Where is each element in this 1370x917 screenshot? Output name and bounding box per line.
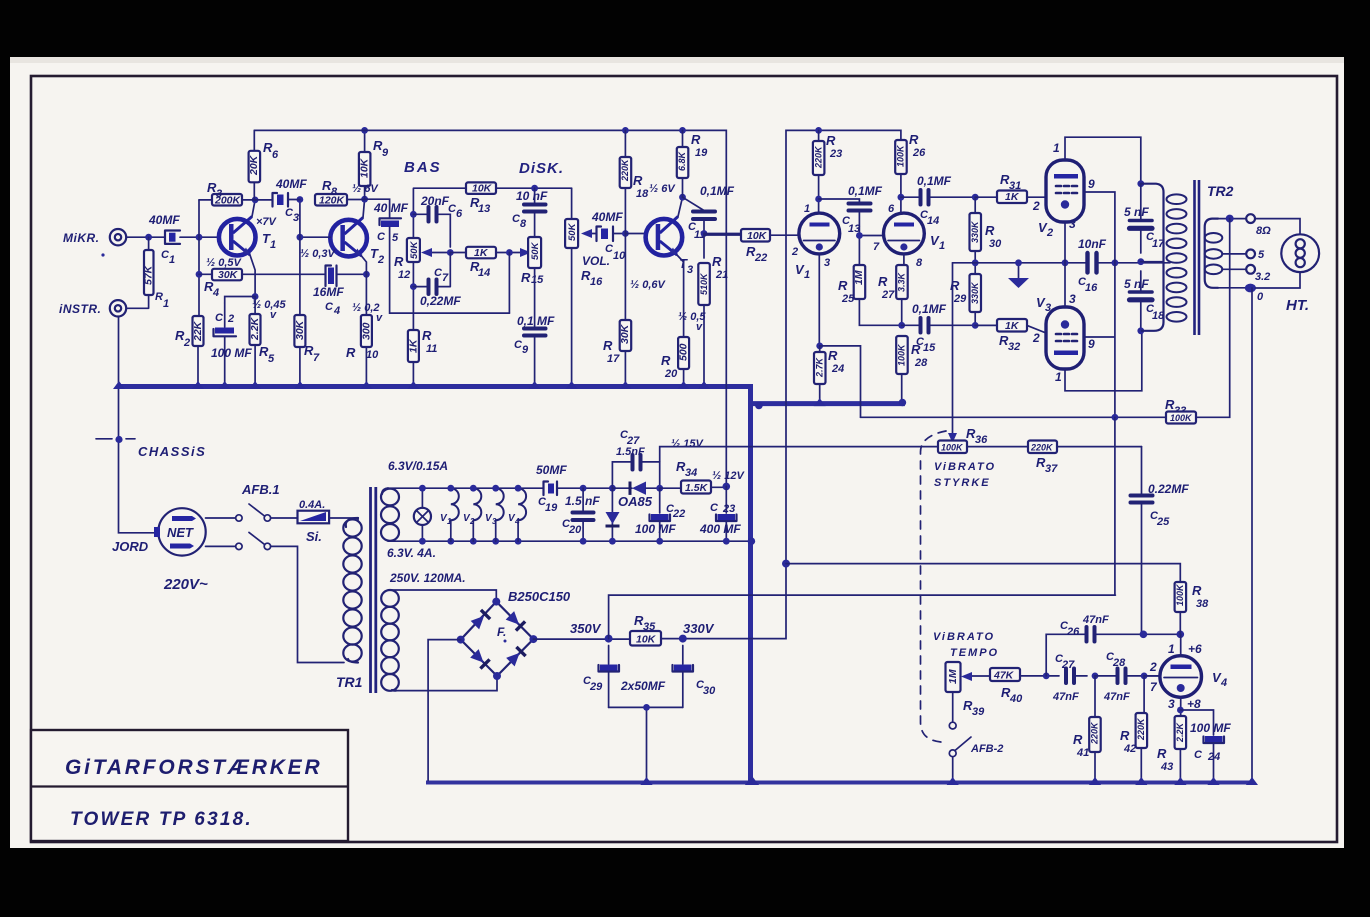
svg-text:330K: 330K: [970, 220, 980, 243]
svg-text:1: 1: [1168, 642, 1175, 656]
R12 wiper arrow: [432, 252, 450, 254]
svg-text:16: 16: [590, 276, 603, 288]
svg-text:30K: 30K: [294, 319, 306, 340]
fuse Si 0.4A: [271, 517, 298, 519]
heater bottom rail: [388, 540, 751, 542]
svg-text:21: 21: [715, 269, 728, 281]
svg-text:R: R: [691, 132, 701, 147]
svg-text:ViBRATO: ViBRATO: [934, 461, 996, 473]
svg-text:1M: 1M: [947, 669, 959, 684]
svg-text:50K: 50K: [409, 240, 420, 259]
capacitor C17 5nF: [1137, 180, 1144, 187]
wire V1b cathode: [903, 254, 905, 265]
svg-text:57K: 57K: [143, 264, 155, 285]
svg-text:1: 1: [447, 517, 452, 526]
svg-text:27: 27: [1061, 659, 1075, 671]
svg-text:47nF: 47nF: [1052, 691, 1079, 703]
chassis marker: [96, 438, 135, 440]
wire 250V bottom to bridge: [396, 676, 497, 691]
capacitor C24 100MF: [1180, 710, 1213, 735]
svg-text:8Ω: 8Ω: [1256, 225, 1271, 237]
node divider: [196, 234, 203, 241]
svg-text:7: 7: [442, 272, 449, 284]
svg-text:23: 23: [829, 148, 842, 160]
svg-text:+8: +8: [1187, 697, 1201, 711]
svg-text:5: 5: [268, 353, 275, 365]
svg-text:100 MF: 100 MF: [1190, 721, 1231, 735]
svg-text:2.2K: 2.2K: [249, 316, 261, 341]
svg-text:25: 25: [841, 293, 855, 305]
svg-text:3: 3: [216, 188, 222, 200]
svg-text:3: 3: [1168, 697, 1175, 711]
TR2 primary winding: [1141, 184, 1164, 331]
svg-text:20K: 20K: [248, 154, 260, 176]
svg-text:220K: 220K: [1030, 443, 1054, 453]
svg-text:2: 2: [791, 246, 798, 258]
tube V2: [1046, 160, 1084, 222]
svg-text:½ 0,3V: ½ 0,3V: [300, 248, 337, 260]
wire 0 tap down: [1251, 288, 1253, 783]
pot R39 1M: [946, 662, 961, 692]
svg-text:1.5K: 1.5K: [685, 482, 709, 494]
capacitor C13 0.1MF: [819, 199, 860, 202]
resistor R26 100K: [895, 140, 907, 174]
svg-text:100K: 100K: [1170, 413, 1193, 423]
resistor R3 200K: [199, 199, 212, 201]
resistor R13 10K: [466, 182, 496, 194]
svg-text:R: R: [911, 342, 921, 357]
svg-text:F.: F.: [497, 625, 506, 639]
node rail R9: [361, 127, 368, 134]
title box: [31, 730, 348, 841]
svg-text:R: R: [661, 353, 671, 368]
wire 350V to screens: [609, 417, 1116, 638]
svg-text:3: 3: [1069, 217, 1076, 231]
svg-text:2: 2: [183, 337, 190, 349]
svg-text:iNSTR.: iNSTR.: [59, 302, 101, 316]
svg-text:28: 28: [914, 357, 928, 369]
switch AFB-2: [952, 692, 954, 721]
svg-text:300: 300: [361, 322, 373, 340]
svg-text:34: 34: [685, 467, 697, 479]
svg-text:35: 35: [643, 621, 656, 633]
TR2 secondary winding: [1205, 219, 1218, 288]
svg-text:C: C: [1194, 749, 1203, 761]
svg-text:TOWER TP 6318.: TOWER TP 6318.: [70, 809, 253, 830]
svg-text:R: R: [633, 173, 643, 188]
capacitor C15 0.1MF: [902, 324, 919, 326]
heater V3: [496, 488, 504, 520]
svg-text:0,22MF: 0,22MF: [420, 294, 461, 308]
svg-text:6.3V/0.15A: 6.3V/0.15A: [388, 459, 448, 473]
ground bus main: [119, 387, 902, 783]
svg-text:1: 1: [1053, 141, 1060, 155]
svg-text:29: 29: [953, 293, 967, 305]
wire C4 to T2 emitter node: [337, 273, 367, 275]
capacitor C27ps 1.5nF: [612, 462, 631, 488]
wire DISK to VOL: [571, 188, 573, 219]
svg-text:v: v: [270, 309, 277, 321]
svg-text:3: 3: [492, 517, 497, 526]
svg-text:17: 17: [607, 353, 620, 365]
capacitor C27 47nF: [1066, 669, 1074, 684]
resistor R42 220K: [1143, 676, 1145, 713]
svg-text:1K: 1K: [474, 247, 489, 259]
node R24 top: [816, 343, 823, 350]
wire 250V top to bridge: [389, 590, 496, 602]
wire INSTR to R1: [126, 295, 148, 308]
svg-text:DiSK.: DiSK.: [519, 160, 564, 177]
wire up to C26: [1046, 634, 1085, 676]
svg-text:+6: +6: [1188, 642, 1202, 656]
wire R4 row to C4: [242, 273, 325, 275]
svg-text:C: C: [325, 301, 334, 313]
tap 5: [1222, 253, 1246, 255]
svg-text:30K: 30K: [218, 269, 239, 281]
svg-text:20: 20: [664, 368, 678, 380]
bridge diode TR: [505, 611, 525, 631]
capacitor C11 0.1MF: [683, 197, 705, 210]
capacitor C14 0.1MF: [901, 196, 919, 198]
wire V1a cathode to R24: [818, 254, 820, 346]
wire node to C2: [225, 297, 255, 304]
svg-text:CHASSiS: CHASSiS: [138, 444, 206, 459]
pot R16 VOL 50K: [565, 219, 578, 248]
ground symbol: [1018, 263, 1020, 278]
resistor R24 2.7K: [819, 346, 821, 352]
wire bridge plus to 350V: [533, 638, 630, 640]
resistor R32 1K: [997, 319, 1027, 332]
svg-text:9: 9: [522, 344, 529, 356]
svg-text:ViBRATO: ViBRATO: [933, 631, 995, 643]
R16 wiper arrow: [590, 233, 596, 235]
svg-text:28: 28: [1112, 657, 1126, 669]
svg-text:10nF: 10nF: [1078, 237, 1107, 251]
TR1 core: [371, 487, 376, 693]
capacitor C25 0.22MF: [1141, 447, 1143, 494]
capacitor C6 20nF: [410, 211, 417, 218]
wire V4 plate: [1180, 634, 1182, 655]
svg-text:OA85: OA85: [618, 494, 653, 509]
wire V4 grid: [1144, 675, 1160, 677]
node emitter: [252, 293, 259, 300]
bridge diode TL: [470, 610, 490, 630]
resistor R5 2.2K: [254, 297, 256, 315]
svg-text:10K: 10K: [359, 157, 371, 178]
svg-text:1K: 1K: [1005, 191, 1020, 203]
resistor R6 20K: [253, 130, 255, 150]
svg-text:510K: 510K: [699, 272, 709, 295]
node C11 bottom: [701, 230, 708, 237]
capacitor C18 5nF: [1140, 271, 1142, 291]
svg-text:R: R: [346, 345, 356, 360]
TR1 HV winding 250V: [381, 590, 399, 607]
svg-text:22K: 22K: [192, 320, 204, 342]
tap 8ohm: [1218, 218, 1246, 220]
svg-text:7: 7: [313, 352, 320, 364]
rectifier bridge B250C150: [461, 602, 534, 676]
svg-text:11: 11: [426, 343, 437, 355]
resistor R4 30K: [199, 273, 212, 275]
svg-text:2: 2: [227, 313, 234, 325]
svg-text:1K: 1K: [1005, 320, 1020, 332]
node V1a plate: [815, 196, 822, 203]
svg-text:2.2K: 2.2K: [1175, 721, 1185, 743]
svg-text:R: R: [1073, 732, 1083, 747]
capacitor C23 400MF: [725, 486, 727, 513]
bottom ground bus: [428, 781, 1249, 785]
svg-text:8: 8: [331, 186, 338, 198]
svg-text:0.22MF: 0.22MF: [1148, 482, 1189, 496]
svg-text:18: 18: [636, 188, 649, 200]
svg-text:R: R: [712, 254, 722, 269]
svg-text:100K: 100K: [897, 343, 907, 366]
svg-text:1K: 1K: [408, 338, 420, 353]
transformer TR1 primary: [346, 518, 358, 527]
svg-text:C: C: [377, 231, 386, 243]
svg-text:14: 14: [478, 267, 490, 279]
svg-text:39: 39: [972, 706, 985, 718]
svg-text:3: 3: [1069, 292, 1076, 306]
node 12V: [723, 483, 731, 491]
svg-text:2: 2: [377, 254, 384, 266]
capacitor C20 1.5nF: [580, 485, 587, 492]
svg-text:HT.: HT.: [1286, 297, 1309, 314]
capacitor C2 100MF: [224, 303, 226, 384]
svg-text:AFB-2: AFB-2: [970, 743, 1003, 755]
node DISK top: [531, 185, 538, 192]
capacitor C3 40MF: [255, 199, 272, 201]
svg-text:12: 12: [398, 269, 410, 281]
node mid R30 R29: [972, 259, 979, 266]
svg-text:0,1MF: 0,1MF: [917, 174, 952, 188]
resistor R41 220K: [1094, 676, 1096, 717]
supply rail2 330V: [786, 130, 901, 563]
svg-text:1: 1: [804, 269, 810, 281]
wire sec bottom to R33: [1196, 219, 1230, 418]
svg-text:0,1MF: 0,1MF: [912, 302, 947, 316]
bus junction triangles main: [113, 381, 125, 389]
svg-text:8: 8: [520, 218, 527, 230]
svg-text:25: 25: [1156, 516, 1170, 528]
svg-text:v: v: [376, 312, 383, 324]
capacitor C29 50MF: [608, 646, 610, 665]
svg-text:B250C150: B250C150: [508, 589, 571, 604]
svg-text:50K: 50K: [530, 241, 541, 260]
svg-text:R: R: [1192, 583, 1202, 598]
svg-text:½ 6V: ½ 6V: [352, 183, 379, 195]
node C15 left: [898, 322, 905, 329]
svg-text:24: 24: [831, 363, 844, 375]
svg-text:9: 9: [1088, 177, 1095, 191]
svg-text:1: 1: [804, 203, 810, 215]
svg-text:R: R: [422, 328, 432, 343]
resistor R25 1M: [854, 265, 866, 299]
svg-text:30: 30: [703, 685, 716, 697]
wire MIKR to C1: [126, 236, 164, 238]
svg-text:C: C: [710, 502, 719, 514]
node R32 row: [972, 322, 979, 329]
svg-text:2: 2: [469, 517, 475, 526]
jack INSTR: [110, 300, 126, 316]
svg-text:100K: 100K: [896, 144, 906, 167]
heater top rail: [388, 487, 543, 489]
resistor R7 30K: [294, 315, 305, 347]
resistor R10 300: [365, 274, 367, 315]
svg-text:1: 1: [163, 298, 169, 310]
resistor R9 10K: [364, 130, 366, 152]
transistor T1: [219, 219, 256, 256]
svg-text:20: 20: [568, 524, 582, 536]
wire T1 emitter to node: [250, 255, 255, 297]
svg-text:1: 1: [1055, 370, 1062, 384]
capacitor C10 40MF: [597, 227, 614, 242]
svg-text:8: 8: [916, 257, 923, 269]
svg-text:AFB.1: AFB.1: [241, 482, 280, 497]
node R14 right: [506, 249, 513, 256]
node R41: [1092, 673, 1099, 680]
pot R15 50K: [528, 237, 541, 268]
svg-text:40: 40: [1009, 693, 1023, 705]
resistor R31 1K: [972, 194, 979, 201]
resistor R2 22K: [193, 316, 204, 346]
wire wiper down: [508, 253, 510, 314]
svg-text:1M: 1M: [853, 270, 865, 285]
svg-text:R: R: [838, 278, 848, 293]
resistor R14 1K: [450, 252, 466, 254]
svg-text:38: 38: [1196, 598, 1209, 610]
svg-text:27: 27: [881, 289, 895, 301]
resistor R20 500: [678, 337, 689, 369]
svg-text:40MF: 40MF: [148, 213, 180, 227]
svg-text:4: 4: [514, 517, 520, 526]
tap 3.2: [1222, 268, 1246, 270]
svg-text:½ 0,5V: ½ 0,5V: [206, 257, 243, 269]
node R4 left: [196, 271, 203, 278]
svg-text:1: 1: [270, 239, 276, 251]
wire left rail R3-R4-R2: [198, 200, 200, 316]
tube V3: [1046, 307, 1084, 369]
svg-text:3: 3: [687, 264, 693, 276]
svg-text:3.3K: 3.3K: [897, 271, 907, 292]
svg-text:220K: 220K: [1090, 721, 1100, 745]
resistor R37 220K: [1028, 441, 1057, 454]
svg-text:0,1MF: 0,1MF: [700, 184, 735, 198]
svg-text:30K: 30K: [619, 323, 631, 344]
capacitor C5 40MF: [365, 199, 390, 218]
svg-text:330K: 330K: [970, 281, 980, 304]
svg-text:10: 10: [366, 349, 379, 361]
svg-text:26: 26: [1066, 626, 1080, 638]
svg-text:R: R: [603, 338, 613, 353]
supply rail1: [254, 130, 726, 486]
svg-text:36: 36: [975, 434, 988, 446]
svg-text:40MF: 40MF: [275, 177, 307, 191]
svg-text:R: R: [878, 274, 888, 289]
tube V1b: [884, 213, 925, 254]
svg-text:v: v: [696, 321, 703, 333]
svg-text:R: R: [826, 133, 836, 148]
svg-text:43: 43: [1160, 761, 1173, 773]
svg-text:400 MF: 400 MF: [699, 522, 741, 536]
svg-text:100K: 100K: [1175, 583, 1185, 606]
diode OA85 series: [609, 485, 616, 492]
svg-text:50MF: 50MF: [536, 463, 567, 477]
svg-text:15: 15: [531, 274, 544, 286]
svg-text:1.5nF: 1.5nF: [616, 446, 645, 458]
svg-text:41: 41: [1076, 747, 1089, 759]
svg-text:R: R: [394, 254, 404, 269]
wire T2 collector: [363, 199, 365, 217]
tap 0: [1218, 287, 1248, 289]
capacitor C22 100MF: [659, 488, 661, 513]
svg-text:R: R: [521, 270, 531, 285]
resistor R38 100K: [1175, 582, 1187, 612]
svg-text:5: 5: [392, 232, 399, 244]
svg-text:4: 4: [333, 305, 340, 317]
wire V4 cathode: [1180, 697, 1182, 716]
svg-text:6.8K: 6.8K: [677, 150, 687, 171]
node V1b plate: [898, 194, 905, 201]
wire caps common to bus: [609, 707, 683, 780]
svg-text:7: 7: [873, 241, 880, 253]
svg-text:6: 6: [888, 203, 895, 215]
transformer TR2 core: [1195, 180, 1200, 335]
svg-text:220K: 220K: [620, 158, 630, 182]
svg-text:330V: 330V: [683, 621, 715, 636]
jack MIKR: [110, 229, 126, 245]
resistor R34 1.5K: [660, 487, 681, 489]
svg-text:19: 19: [545, 502, 558, 514]
svg-text:31: 31: [1009, 180, 1021, 192]
BAS rail: [413, 188, 466, 330]
svg-text:3: 3: [293, 212, 299, 224]
svg-text:2x50MF: 2x50MF: [620, 679, 666, 693]
svg-text:R: R: [1120, 728, 1130, 743]
svg-text:6.3V. 4A.: 6.3V. 4A.: [387, 546, 436, 560]
wire V3 plate bottom: [1065, 331, 1142, 391]
svg-text:2: 2: [1046, 227, 1053, 239]
node T3 base: [622, 230, 629, 237]
wire T3 collector: [678, 197, 683, 216]
heater V1: [451, 488, 459, 520]
svg-text:2: 2: [1032, 199, 1040, 213]
svg-text:50K: 50K: [567, 222, 578, 241]
pot R12 50K: [407, 238, 420, 262]
svg-text:R: R: [155, 291, 163, 303]
svg-text:29: 29: [589, 681, 603, 693]
svg-text:250V. 120MA.: 250V. 120MA.: [389, 571, 466, 585]
svg-text:3: 3: [1045, 302, 1051, 314]
svg-text:R: R: [985, 223, 995, 238]
svg-text:1: 1: [169, 254, 175, 266]
svg-text:40MF: 40MF: [591, 210, 623, 224]
svg-text:16MF: 16MF: [313, 285, 344, 299]
resistor R19 6.8K: [679, 127, 686, 134]
resistor R30 330K: [974, 197, 976, 213]
svg-text:NET: NET: [167, 525, 194, 540]
svg-text:22: 22: [672, 508, 685, 520]
node wiper C6C7: [447, 249, 454, 256]
svg-text:10K: 10K: [472, 183, 493, 195]
resistor R22 10K: [704, 234, 741, 236]
svg-text:10 nF: 10 nF: [516, 189, 548, 203]
svg-text:JORD: JORD: [112, 539, 149, 554]
wire pin9 vertical: [1084, 192, 1115, 417]
svg-text:5: 5: [1258, 249, 1265, 261]
svg-text:MiKR.: MiKR.: [63, 231, 100, 245]
svg-text:TR2: TR2: [1207, 183, 1234, 199]
